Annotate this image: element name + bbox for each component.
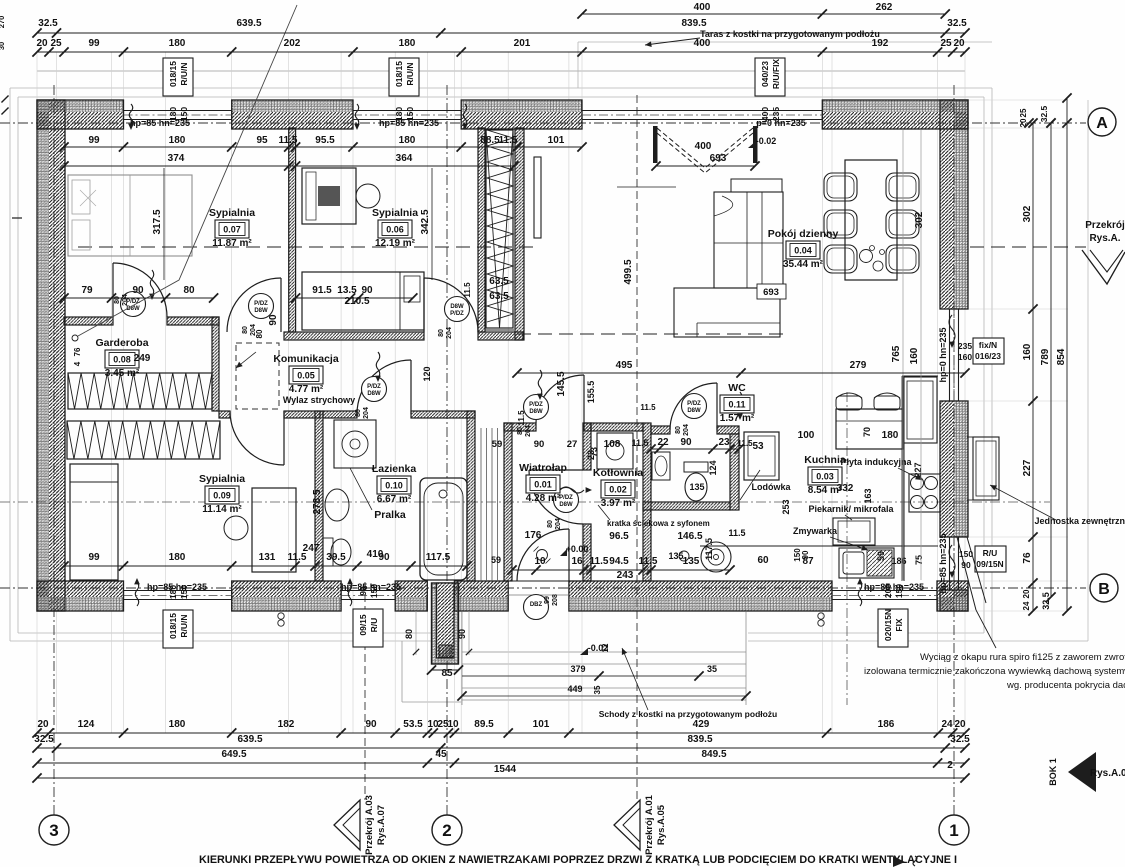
svg-text:3.45 m²: 3.45 m²: [105, 368, 140, 379]
svg-text:208: 208: [552, 594, 559, 606]
svg-text:160: 160: [958, 352, 972, 362]
svg-text:11.5: 11.5: [517, 410, 526, 426]
svg-text:3: 3: [49, 821, 58, 840]
svg-text:379: 379: [570, 664, 585, 674]
svg-text:849.5: 849.5: [701, 749, 726, 760]
svg-text:Rys.A.05: Rys.A.05: [656, 804, 667, 845]
svg-text:P/DZ: P/DZ: [254, 301, 268, 307]
svg-text:765: 765: [891, 345, 902, 362]
svg-text:16: 16: [571, 556, 583, 567]
svg-text:P/DZ: P/DZ: [687, 401, 701, 407]
svg-text:649.5: 649.5: [221, 749, 246, 760]
svg-text:201: 201: [514, 38, 531, 49]
svg-text:180: 180: [168, 585, 178, 599]
svg-text:80: 80: [355, 409, 362, 417]
svg-text:D8W: D8W: [450, 304, 464, 310]
svg-text:WC: WC: [728, 382, 746, 394]
svg-text:495: 495: [616, 360, 633, 371]
svg-text:R/U/N: R/U/N: [405, 62, 415, 85]
svg-text:96.5: 96.5: [609, 531, 629, 542]
svg-text:99: 99: [544, 596, 551, 604]
svg-text:80: 80: [242, 326, 249, 334]
svg-text:D8W: D8W: [559, 502, 573, 508]
svg-text:90: 90: [268, 314, 279, 326]
svg-text:135: 135: [683, 556, 700, 567]
svg-text:99: 99: [88, 38, 100, 49]
svg-text:204: 204: [683, 424, 690, 436]
svg-text:A: A: [1096, 115, 1108, 132]
svg-text:0.11: 0.11: [728, 400, 745, 410]
svg-text:0.10: 0.10: [385, 481, 403, 491]
svg-text:018/15: 018/15: [168, 61, 178, 87]
svg-text:20: 20: [36, 38, 48, 49]
svg-text:Sypialnia: Sypialnia: [199, 473, 245, 485]
svg-text:499.5: 499.5: [623, 259, 634, 284]
svg-text:Jednostka zewnętrzna po: Jednostka zewnętrzna po: [1034, 516, 1125, 526]
svg-text:186: 186: [878, 719, 895, 730]
svg-text:24: 24: [941, 719, 953, 730]
svg-text:180: 180: [399, 135, 416, 146]
svg-text:145.5: 145.5: [556, 371, 567, 396]
svg-text:R/U: R/U: [369, 618, 379, 633]
svg-text:Garderoba: Garderoba: [95, 337, 148, 349]
svg-text:1: 1: [949, 821, 958, 840]
svg-text:80: 80: [114, 296, 121, 304]
svg-text:101: 101: [533, 719, 550, 730]
svg-text:D8W: D8W: [367, 391, 381, 397]
svg-text:317.5: 317.5: [152, 209, 163, 234]
svg-text:89.5: 89.5: [474, 719, 494, 730]
svg-text:hp=0 hn=235: hp=0 hn=235: [938, 327, 948, 382]
svg-text:247: 247: [303, 543, 320, 554]
svg-text:150: 150: [369, 584, 379, 598]
svg-text:176: 176: [525, 530, 542, 541]
svg-text:80: 80: [517, 427, 524, 435]
svg-text:24: 24: [1022, 601, 1031, 610]
svg-text:90: 90: [457, 629, 467, 639]
svg-text:124: 124: [708, 460, 718, 475]
svg-text:117.5: 117.5: [704, 538, 714, 560]
svg-text:0.02: 0.02: [609, 485, 627, 495]
svg-text:016/23: 016/23: [975, 351, 1001, 361]
svg-text:374: 374: [168, 153, 185, 164]
svg-text:R/U/FIX: R/U/FIX: [771, 59, 781, 90]
svg-text:BOK 1: BOK 1: [1048, 758, 1058, 786]
svg-text:R/U: R/U: [983, 548, 998, 558]
svg-text:11.5: 11.5: [728, 528, 745, 538]
svg-text:53: 53: [752, 441, 764, 452]
svg-text:400: 400: [760, 107, 770, 121]
svg-text:70: 70: [862, 427, 872, 437]
svg-text:180: 180: [169, 135, 186, 146]
svg-text:Kotłownia: Kotłownia: [593, 467, 643, 479]
svg-text:155.5: 155.5: [586, 381, 596, 404]
svg-text:040/23: 040/23: [760, 61, 770, 87]
svg-text:160: 160: [909, 347, 920, 364]
svg-text:11.5: 11.5: [590, 556, 609, 567]
svg-text:204: 204: [363, 407, 370, 419]
svg-text:253: 253: [781, 499, 791, 514]
svg-text:kratka ściekowa z syfonem: kratka ściekowa z syfonem: [607, 519, 710, 528]
svg-text:839.5: 839.5: [681, 18, 706, 29]
svg-text:854: 854: [1056, 348, 1067, 365]
svg-text:235: 235: [958, 341, 972, 351]
svg-text:332: 332: [837, 483, 854, 494]
svg-text:180: 180: [169, 719, 186, 730]
svg-text:163: 163: [863, 488, 873, 503]
svg-text:80: 80: [547, 520, 554, 528]
svg-text:Przekrój A.03: Przekrój A.03: [364, 795, 375, 855]
svg-text:80: 80: [183, 285, 195, 296]
svg-text:90: 90: [358, 586, 368, 596]
svg-text:63.5: 63.5: [489, 276, 509, 287]
svg-text:11.5: 11.5: [463, 282, 472, 298]
svg-text:639.5: 639.5: [236, 18, 261, 29]
svg-text:20: 20: [953, 38, 965, 49]
svg-text:P/DZ: P/DZ: [529, 402, 543, 408]
svg-text:11.5: 11.5: [640, 403, 656, 412]
svg-text:80: 80: [675, 426, 682, 434]
svg-text:Pokój dzienny: Pokój dzienny: [768, 228, 839, 240]
svg-text:150: 150: [405, 107, 415, 121]
svg-text:120: 120: [422, 366, 432, 381]
svg-text:1.57 m²: 1.57 m²: [720, 413, 755, 424]
svg-text:410: 410: [367, 549, 384, 560]
svg-text:22: 22: [657, 437, 669, 448]
svg-text:302: 302: [1022, 205, 1033, 222]
svg-text:0.01: 0.01: [534, 480, 552, 490]
svg-text:30: 30: [0, 42, 6, 50]
svg-text:243: 243: [617, 570, 634, 581]
svg-text:11.5: 11.5: [639, 556, 658, 567]
svg-text:400: 400: [695, 141, 712, 152]
svg-text:2: 2: [442, 821, 451, 840]
svg-text:278.5: 278.5: [312, 489, 323, 514]
svg-text:1544: 1544: [494, 764, 517, 775]
svg-text:Łazienka: Łazienka: [372, 463, 417, 475]
svg-text:018/15: 018/15: [168, 613, 178, 639]
svg-text:186: 186: [891, 556, 906, 566]
svg-text:135: 135: [689, 482, 704, 492]
svg-text:Wiatrołap: Wiatrołap: [519, 462, 567, 474]
svg-text:200: 200: [883, 584, 893, 598]
svg-text:P/DZ: P/DZ: [559, 495, 573, 501]
svg-text:150: 150: [894, 584, 904, 598]
svg-text:429: 429: [693, 719, 710, 730]
svg-text:P/DZ: P/DZ: [367, 384, 381, 390]
svg-text:400: 400: [694, 2, 711, 13]
svg-text:12.19 m²: 12.19 m²: [375, 238, 416, 249]
svg-text:100: 100: [798, 430, 815, 441]
svg-text:Wyciąg z okapu rura spiro fi12: Wyciąg z okapu rura spiro fi125 z zawore…: [920, 652, 1125, 663]
svg-text:2: 2: [947, 760, 953, 771]
svg-text:400: 400: [694, 38, 711, 49]
svg-text:210.5: 210.5: [344, 296, 369, 307]
svg-text:73: 73: [589, 447, 599, 457]
svg-text:Rys.A.04: Rys.A.04: [1090, 768, 1125, 779]
svg-text:R/U/N: R/U/N: [179, 614, 189, 637]
svg-text:0.07: 0.07: [223, 225, 241, 235]
svg-text:76: 76: [73, 347, 82, 356]
svg-text:192: 192: [872, 38, 889, 49]
svg-text:Pralka: Pralka: [374, 509, 406, 521]
svg-text:wg. producenta pokrycia dac: wg. producenta pokrycia dac: [1006, 680, 1125, 691]
svg-text:R/U/N: R/U/N: [179, 62, 189, 85]
svg-text:32.5: 32.5: [34, 734, 54, 745]
svg-text:80: 80: [255, 329, 264, 338]
svg-text:Komunikacja: Komunikacja: [273, 353, 339, 365]
svg-text:45: 45: [435, 749, 447, 760]
svg-text:09/15: 09/15: [358, 614, 368, 636]
svg-text:249: 249: [134, 353, 151, 364]
svg-text:262: 262: [876, 2, 893, 13]
svg-text:99: 99: [88, 135, 100, 146]
svg-text:Płyta indukcyjna: Płyta indukcyjna: [840, 457, 912, 467]
svg-text:131: 131: [259, 552, 276, 563]
svg-text:Sypialnia: Sypialnia: [209, 207, 255, 219]
svg-text:839.5: 839.5: [687, 734, 712, 745]
svg-text:227: 227: [1022, 459, 1033, 476]
svg-text:Sypialnia: Sypialnia: [372, 207, 418, 219]
svg-text:13.5: 13.5: [337, 285, 357, 296]
svg-text:160: 160: [1022, 343, 1033, 360]
svg-text:23: 23: [718, 437, 730, 448]
svg-text:180: 180: [169, 38, 186, 49]
svg-text:53.5: 53.5: [403, 719, 423, 730]
svg-text:124: 124: [78, 719, 95, 730]
svg-text:4: 4: [73, 361, 82, 366]
svg-text:11.87 m²: 11.87 m²: [212, 238, 252, 249]
svg-text:Rys.A.07: Rys.A.07: [376, 805, 387, 845]
svg-text:180: 180: [394, 107, 404, 121]
svg-text:3.97 m²: 3.97 m²: [601, 498, 636, 509]
svg-text:25: 25: [940, 38, 952, 49]
svg-text:20: 20: [1022, 589, 1031, 598]
svg-text:59: 59: [876, 551, 886, 561]
svg-text:108: 108: [604, 439, 621, 450]
svg-text:80: 80: [404, 629, 414, 639]
svg-text:94.5: 94.5: [609, 556, 629, 567]
svg-text:79: 79: [81, 285, 93, 296]
svg-text:90: 90: [680, 437, 692, 448]
svg-text:90: 90: [361, 285, 373, 296]
svg-text:11.5: 11.5: [737, 439, 753, 448]
svg-text:279: 279: [850, 360, 867, 371]
svg-text:204: 204: [525, 425, 532, 437]
svg-text:Piekarnik/ mikrofala: Piekarnik/ mikrofala: [808, 504, 894, 514]
svg-text:95.5: 95.5: [315, 135, 335, 146]
svg-text:32.5: 32.5: [1039, 105, 1049, 122]
svg-text:90: 90: [365, 719, 377, 730]
svg-text:135: 135: [668, 551, 683, 561]
svg-text:59: 59: [492, 439, 503, 450]
svg-text:11.5: 11.5: [499, 135, 518, 146]
svg-text:204: 204: [122, 294, 129, 306]
svg-text:146.5: 146.5: [677, 531, 702, 542]
svg-text:99: 99: [88, 552, 100, 563]
svg-text:90: 90: [961, 560, 971, 570]
svg-text:364: 364: [396, 153, 413, 164]
svg-text:20: 20: [37, 719, 49, 730]
svg-text:hp=85 hn=235: hp=85 hn=235: [938, 533, 948, 593]
svg-text:75: 75: [914, 555, 924, 565]
svg-text:D8W: D8W: [126, 306, 140, 312]
svg-text:91.5: 91.5: [312, 285, 332, 296]
svg-text:0.05: 0.05: [297, 371, 315, 381]
svg-text:25: 25: [1019, 108, 1028, 117]
svg-text:10: 10: [534, 556, 546, 567]
svg-text:59: 59: [491, 555, 501, 565]
svg-text:80: 80: [438, 329, 445, 337]
svg-text:-0.02: -0.02: [756, 136, 777, 146]
svg-text:150: 150: [179, 107, 189, 121]
svg-text:Taras z kostki na przygotowany: Taras z kostki na przygotowanym podłożu: [700, 29, 880, 39]
svg-text:117.5: 117.5: [426, 552, 451, 563]
svg-text:639.5: 639.5: [237, 734, 262, 745]
svg-text:35: 35: [707, 664, 717, 674]
svg-text:789: 789: [1040, 348, 1051, 365]
svg-text:Wylaz strychowy: Wylaz strychowy: [283, 395, 355, 405]
svg-text:20: 20: [954, 719, 966, 730]
svg-text:101: 101: [548, 135, 565, 146]
svg-text:4.77 m²: 4.77 m²: [289, 384, 324, 395]
svg-text:D8W: D8W: [687, 408, 701, 414]
svg-text:204: 204: [446, 327, 453, 339]
svg-text:235: 235: [771, 107, 781, 121]
svg-text:020/15N: 020/15N: [883, 609, 893, 641]
svg-text:0.09: 0.09: [213, 491, 231, 501]
svg-text:180: 180: [168, 107, 178, 121]
svg-text:B: B: [1098, 581, 1110, 598]
svg-text:270: 270: [0, 16, 6, 29]
svg-text:11.5: 11.5: [631, 438, 648, 448]
svg-text:63.5: 63.5: [489, 291, 509, 302]
svg-text:202: 202: [284, 38, 301, 49]
svg-text:32.5: 32.5: [947, 18, 967, 29]
svg-text:11.5: 11.5: [279, 135, 298, 146]
svg-text:6.67 m²: 6.67 m²: [377, 494, 412, 505]
svg-text:D8W: D8W: [529, 409, 543, 415]
svg-text:204: 204: [555, 518, 562, 530]
svg-text:180: 180: [882, 430, 899, 441]
svg-text:693: 693: [763, 287, 779, 298]
svg-text:32.5: 32.5: [38, 18, 58, 29]
svg-text:KIERUNKI PRZEPŁYWU POWIETRZA O: KIERUNKI PRZEPŁYWU POWIETRZA OD OKIEN Z …: [199, 854, 957, 866]
svg-text:180: 180: [399, 38, 416, 49]
svg-text:12: 12: [601, 643, 610, 652]
svg-text:0.03: 0.03: [816, 472, 834, 482]
svg-text:09/15N: 09/15N: [976, 559, 1003, 569]
svg-text:11.14 m²: 11.14 m²: [202, 504, 242, 515]
svg-text:0.04: 0.04: [794, 246, 812, 256]
svg-text:fix/N: fix/N: [979, 340, 997, 350]
svg-text:018/15: 018/15: [394, 61, 404, 87]
svg-text:76: 76: [1022, 552, 1033, 564]
svg-text:90: 90: [801, 550, 810, 559]
svg-text:35: 35: [593, 685, 602, 694]
svg-text:Zmywarka: Zmywarka: [793, 526, 838, 536]
svg-text:+0.00: +0.00: [566, 544, 589, 554]
svg-text:95: 95: [256, 135, 268, 146]
svg-text:180: 180: [169, 552, 186, 563]
svg-text:90: 90: [132, 285, 144, 296]
svg-text:39.5: 39.5: [326, 552, 346, 563]
svg-text:D8W: D8W: [254, 308, 268, 314]
svg-text:342.5: 342.5: [420, 209, 431, 234]
svg-text:27: 27: [567, 439, 578, 450]
svg-text:150: 150: [179, 585, 189, 599]
svg-text:32.5: 32.5: [950, 734, 970, 745]
svg-text:Rys.A.: Rys.A.: [1089, 233, 1120, 244]
svg-text:449: 449: [567, 684, 582, 694]
svg-text:izolowana termicznie zakończon: izolowana termicznie zakończona wywiewką…: [864, 666, 1125, 677]
svg-text:182: 182: [278, 719, 295, 730]
svg-text:Przekrój: Przekrój: [1085, 220, 1125, 231]
svg-text:227: 227: [913, 462, 923, 477]
svg-text:90: 90: [534, 439, 545, 450]
svg-text:DBZ: DBZ: [530, 602, 543, 608]
svg-text:88.5: 88.5: [480, 135, 500, 146]
svg-text:302: 302: [914, 211, 925, 228]
svg-text:0.06: 0.06: [386, 225, 404, 235]
svg-text:60: 60: [757, 555, 769, 566]
svg-text:Przekrój A.01: Przekrój A.01: [644, 794, 655, 855]
svg-text:FIX: FIX: [894, 618, 904, 632]
svg-text:Lodówka: Lodówka: [751, 482, 791, 492]
svg-text:Schody z kostki na przygotowan: Schody z kostki na przygotowanym podłożu: [599, 709, 778, 719]
svg-text:693: 693: [710, 153, 727, 164]
svg-text:4.28 m²: 4.28 m²: [526, 493, 561, 504]
svg-text:P/DZ: P/DZ: [450, 311, 464, 317]
svg-text:25: 25: [50, 38, 62, 49]
svg-text:35.44 m²: 35.44 m²: [783, 259, 824, 270]
svg-text:0.08: 0.08: [113, 355, 131, 365]
svg-text:10: 10: [447, 719, 459, 730]
